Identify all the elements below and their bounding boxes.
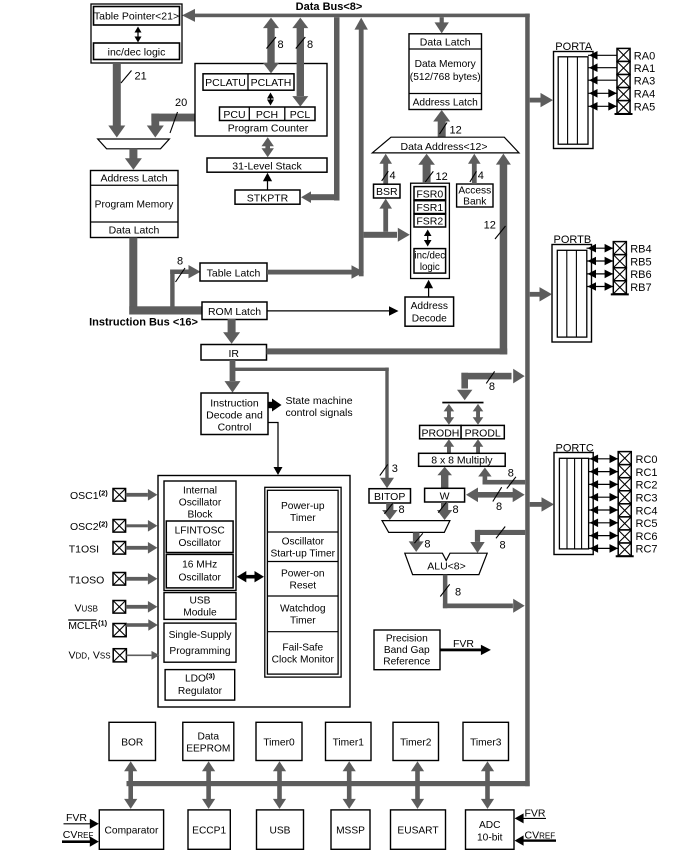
arrow bar to PRODL [476, 410, 480, 418]
svg-text:MCLR(1): MCLR(1) [68, 618, 107, 632]
register Table Latch [200, 263, 267, 281]
register Table Pointer outer box [91, 4, 182, 63]
svg-text:12: 12 [436, 171, 448, 183]
svg-text:State machine: State machine [286, 395, 353, 407]
svg-text:RA1: RA1 [634, 63, 655, 75]
wire data bus to PORTB [530, 292, 540, 297]
register BITOP [369, 489, 411, 503]
module resets inner box with timers [267, 490, 338, 674]
peripheral Timer1 [326, 722, 372, 760]
svg-text:LFINTOSC: LFINTOSC [175, 526, 225, 537]
svg-text:8: 8 [278, 39, 284, 51]
svg-text:CVREF: CVREF [63, 829, 94, 841]
svg-text:8: 8 [508, 468, 514, 480]
slash 12 riser [495, 226, 506, 239]
wire Timer0/USB [277, 769, 282, 802]
svg-text:Address Latch: Address Latch [100, 173, 167, 185]
svg-text:Decode: Decode [412, 314, 447, 325]
svg-text:8: 8 [455, 587, 461, 599]
svg-text:RC2: RC2 [636, 480, 658, 492]
svg-text:Timer0: Timer0 [263, 737, 295, 748]
register W [425, 488, 465, 502]
svg-text:VDD, VSS: VDD, VSS [69, 650, 111, 662]
svg-text:RA5: RA5 [634, 102, 655, 114]
svg-text:Watchdog: Watchdog [280, 604, 326, 615]
svg-text:Module: Module [183, 608, 217, 619]
svg-text:inc/dec: inc/dec [414, 251, 445, 262]
peripheral Timer3 [463, 722, 509, 760]
svg-text:Start-up Timer: Start-up Timer [271, 549, 336, 560]
slash 21 [121, 71, 132, 84]
svg-text:8: 8 [399, 504, 405, 516]
svg-text:(512/768 bytes): (512/768 bytes) [410, 72, 481, 83]
svg-text:BITOP: BITOP [374, 491, 405, 503]
svg-text:Band Gap: Band Gap [384, 645, 430, 656]
slash 20 [170, 112, 178, 133]
wire Timer2/EUSART [415, 769, 420, 802]
peripheral ADC 10-bit [466, 810, 515, 849]
wire CVREF to comparator [62, 840, 91, 843]
arrow multiply to PRODH [447, 447, 451, 454]
wire data address to address latch 12 [438, 121, 446, 137]
peripheral EUSART [391, 810, 446, 849]
arrow bar to PRODH [447, 410, 451, 418]
register PCLATU/PCLATH [203, 74, 294, 90]
wire 20-bit program counter to mux [151, 114, 195, 122]
bidirectional arrow FSR/inc-dec [427, 233, 429, 243]
slash 8 mux alu [414, 533, 422, 543]
module system block outer box [158, 476, 350, 708]
register FSR1 [414, 201, 446, 214]
svg-text:T1OSI: T1OSI [69, 543, 99, 555]
svg-text:FVR: FVR [66, 812, 87, 824]
wire program counter to stack double arrow [265, 146, 270, 150]
svg-text:Data Latch: Data Latch [420, 37, 471, 49]
svg-text:Oscillator: Oscillator [282, 537, 325, 548]
slash 8 alu out [440, 584, 449, 596]
bidirectional arrow oscillator/resets [245, 575, 259, 579]
svg-text:Address Latch: Address Latch [413, 97, 478, 108]
svg-text:Oscillator: Oscillator [179, 498, 222, 509]
svg-text:31-Level Stack: 31-Level Stack [232, 160, 302, 172]
wire address decode to inc/dec [428, 288, 430, 297]
svg-text:Power-up: Power-up [281, 501, 325, 512]
svg-text:Data Address<12>: Data Address<12> [401, 141, 488, 153]
wire data bus to PCLATH 8 [267, 28, 274, 64]
svg-text:Oscillator: Oscillator [178, 573, 221, 584]
wire PROD bus bar [442, 402, 483, 404]
wire Timer3/ADC [485, 769, 490, 802]
wire IR literal to BITOP [233, 368, 389, 371]
register PCU/PCH/PCL [220, 107, 316, 121]
svg-text:10-bit: 10-bit [477, 833, 503, 844]
svg-text:OSC1(2): OSC1(2) [70, 489, 108, 503]
svg-text:T1OSO: T1OSO [69, 574, 105, 586]
wire mux to address latch [129, 149, 137, 159]
arrow multiply to PRODL [476, 447, 480, 454]
svg-text:BSR: BSR [376, 186, 398, 198]
wire IR to instruction decode [230, 360, 236, 381]
wire table latch to data bus riser [267, 270, 352, 275]
svg-text:IR: IR [228, 348, 239, 360]
arrow state machine control signals [268, 402, 273, 408]
svg-text:RB6: RB6 [630, 269, 651, 281]
register PRODH [420, 425, 462, 438]
wire bottom peripheral bus [127, 781, 530, 786]
svg-text:Data Bus<8>: Data Bus<8> [296, 1, 363, 13]
wire data bus tap to BSR/FSR [364, 232, 397, 238]
svg-text:logic: logic [420, 262, 440, 273]
register Table Pointer<21> [94, 7, 180, 26]
svg-text:RA0: RA0 [634, 51, 655, 63]
peripheral Timer0 [256, 722, 302, 760]
svg-text:Timer: Timer [290, 513, 316, 524]
svg-text:Single-Supply: Single-Supply [169, 630, 233, 641]
slash 8 bus alu [496, 527, 505, 539]
slash 12 FSR [425, 171, 433, 182]
svg-text:Bank: Bank [463, 197, 487, 208]
memory data memory box [409, 34, 482, 110]
wire access bank to data address 4 [472, 163, 477, 185]
wire decode to oscillator block [268, 423, 278, 469]
svg-text:MSSP: MSSP [336, 826, 365, 837]
oscillator 16 MHz [166, 554, 233, 588]
svg-text:Fail-Safe: Fail-Safe [282, 643, 323, 654]
pin stack bottom tick PORTB [611, 293, 629, 295]
wire data bus to data latch [440, 17, 444, 22]
slash 8 PROD [486, 371, 494, 383]
wire Timer1/MSSP [347, 769, 352, 802]
module resets outer box [265, 487, 341, 677]
svg-text:Block: Block [188, 510, 214, 521]
peripheral Timer2 [393, 722, 439, 760]
svg-text:Timer: Timer [290, 616, 316, 627]
slash 8 W mux [438, 502, 446, 512]
svg-text:Internal: Internal [183, 486, 217, 497]
wire IR direct address riser to data address mux [500, 163, 508, 354]
svg-text:STKPTR: STKPTR [247, 193, 289, 205]
pin RC2 [589, 483, 619, 485]
svg-text:W: W [440, 491, 450, 503]
svg-text:ECCP1: ECCP1 [192, 826, 226, 837]
svg-text:RC4: RC4 [636, 505, 658, 517]
wire mux to ALU 8 [413, 532, 420, 541]
wire data bus to PORTA [530, 98, 541, 103]
pin stack bottom tick PORTA [615, 113, 633, 115]
pin RC5 [589, 522, 619, 524]
logic inc/dec logic FSR [414, 249, 446, 274]
wire W to alu mux [441, 502, 448, 510]
svg-text:Decode and: Decode and [206, 410, 263, 422]
wire 21-bit table pointer to mux [113, 63, 121, 126]
svg-text:FVR: FVR [453, 638, 474, 650]
slash 8 W bus [493, 487, 502, 501]
svg-text:Control: Control [218, 422, 252, 434]
svg-text:8 x 8 Multiply: 8 x 8 Multiply [431, 455, 493, 467]
svg-text:12: 12 [484, 219, 496, 231]
svg-text:OSC2(2): OSC2(2) [70, 520, 108, 534]
svg-text:VUSB: VUSB [75, 602, 98, 614]
wire W to multiply [441, 475, 448, 489]
peripheral BOR [109, 722, 156, 760]
svg-text:3: 3 [392, 463, 398, 475]
svg-text:BOR: BOR [121, 737, 143, 748]
svg-text:8: 8 [307, 39, 313, 51]
svg-text:Reference: Reference [383, 657, 430, 668]
wire data bus riser up [359, 29, 364, 276]
svg-text:FVR: FVR [525, 808, 546, 820]
wire FVR to ADC [522, 817, 546, 819]
pin MCLR [68, 619, 96, 621]
module USB Module [164, 593, 236, 620]
oscillator LFINTOSC [166, 521, 233, 553]
svg-text:Oscillator: Oscillator [178, 538, 221, 549]
svg-text:4: 4 [390, 170, 396, 182]
pin RC0 [589, 458, 619, 460]
peripheral Comparator [99, 810, 163, 849]
pin RB5 [587, 260, 614, 262]
wire 8-bit branch to table latch [170, 270, 174, 310]
reference Precision Band Gap Reference [374, 630, 440, 670]
memory program memory box [91, 171, 179, 238]
register IR [201, 345, 267, 361]
alu ALU<8> [405, 553, 487, 574]
svg-text:8: 8 [177, 256, 183, 268]
arrow FVR output [440, 649, 481, 652]
slash 8 PCLATH [267, 37, 277, 49]
svg-text:EEPROM: EEPROM [186, 744, 230, 755]
svg-text:Instruction: Instruction [210, 398, 259, 410]
pin RB6 [587, 273, 614, 275]
register program counter outer box [195, 64, 327, 137]
pin stack bottom tick PORTC [616, 555, 634, 557]
mux Data Address<12> [372, 137, 519, 153]
bidirectional arrow table pointer/inc-dec [137, 30, 139, 39]
logic inc/dec logic [94, 43, 180, 60]
svg-text:Comparator: Comparator [105, 826, 159, 837]
svg-text:Program Counter: Program Counter [228, 122, 309, 134]
wire CVREF to ADC [522, 839, 556, 841]
svg-text:16 MHz: 16 MHz [182, 560, 217, 571]
wire instruction path data latch to ROM latch [129, 238, 137, 315]
register PRODL [461, 425, 504, 438]
svg-text:Timer3: Timer3 [470, 737, 502, 748]
svg-text:8: 8 [500, 540, 506, 552]
pin RC3 [589, 496, 619, 498]
register STKPTR [235, 190, 300, 204]
pin RA0 [588, 54, 617, 56]
slash 8 BITOP [384, 503, 392, 513]
arrowhead data bus into Table Pointer [182, 9, 195, 22]
svg-text:Timer1: Timer1 [333, 737, 365, 748]
wire IR output bus [267, 348, 508, 354]
logic Address Decode [405, 297, 454, 326]
svg-text:USB: USB [270, 826, 291, 837]
svg-text:Reset: Reset [289, 581, 316, 592]
peripheral USB [257, 810, 304, 849]
svg-text:Data Latch: Data Latch [109, 225, 160, 237]
svg-text:Program Memory: Program Memory [95, 200, 175, 211]
svg-text:Clock Monitor: Clock Monitor [272, 655, 335, 666]
svg-text:Instruction Bus <16>: Instruction Bus <16> [89, 317, 198, 329]
pin RB7 [587, 286, 614, 288]
wire FSR to data address 12 [423, 165, 431, 184]
svg-text:12: 12 [450, 125, 462, 137]
module LDO Regulator [165, 670, 235, 701]
module Single-Supply Programming [164, 623, 236, 662]
svg-text:FSR0: FSR0 [416, 189, 443, 201]
svg-text:Data: Data [198, 732, 220, 743]
svg-text:RC7: RC7 [636, 544, 658, 556]
svg-text:Table Pointer<21>: Table Pointer<21> [94, 11, 179, 23]
svg-text:control signals: control signals [286, 407, 353, 419]
svg-text:Precision: Precision [386, 634, 428, 645]
svg-text:Access: Access [458, 186, 491, 197]
peripheral Data EEPROM [183, 722, 234, 760]
wire data bus to multiply 8 [483, 476, 488, 485]
svg-text:RC6: RC6 [636, 531, 658, 543]
wire data bus to PORTC [530, 502, 542, 507]
register FSR0 [414, 187, 446, 200]
svg-text:PRODH: PRODH [421, 427, 459, 439]
memory 31-Level Stack [207, 158, 327, 172]
svg-text:RC5: RC5 [636, 518, 658, 530]
svg-text:ADC: ADC [479, 820, 501, 831]
slash 8 multiply [507, 477, 516, 489]
svg-text:8: 8 [424, 538, 430, 550]
wire ROM latch to address decode [267, 310, 390, 312]
svg-text:PCLATU: PCLATU [205, 77, 246, 89]
svg-text:ROM Latch: ROM Latch [208, 306, 261, 318]
svg-text:Table Latch: Table Latch [207, 267, 261, 279]
svg-text:inc/dec logic: inc/dec logic [108, 47, 166, 59]
bidirectional arrow PCLATH/PCH [270, 96, 272, 103]
svg-text:RB4: RB4 [630, 244, 651, 256]
wire BOR/Comparator [128, 769, 133, 802]
svg-text:RC1: RC1 [636, 467, 658, 479]
svg-text:Programming: Programming [169, 646, 230, 657]
svg-text:8: 8 [453, 504, 459, 516]
svg-text:FSR1: FSR1 [416, 202, 443, 214]
peripheral ECCP1 [188, 810, 230, 849]
mux W/BITOP to ALU [382, 521, 450, 533]
wire STKPTR to stack [267, 181, 269, 190]
wire W to data bus 8 double arrow [478, 492, 515, 498]
wire BITOP to alu mux [386, 503, 393, 510]
pin RA5 [588, 105, 617, 107]
svg-text:Regulator: Regulator [178, 686, 223, 697]
svg-text:RC0: RC0 [636, 454, 658, 466]
svg-text:PCL: PCL [290, 109, 311, 121]
svg-text:Address: Address [411, 301, 448, 312]
pin RC6 [589, 535, 619, 537]
svg-text:21: 21 [135, 71, 147, 83]
svg-text:RC3: RC3 [636, 493, 658, 505]
wire data bus top [193, 14, 530, 18]
wire data bus to PCL 8 [297, 28, 304, 96]
pin RA1 [588, 67, 617, 69]
wire FVR to comparator [64, 823, 92, 825]
logic Instruction Decode and Control [201, 393, 268, 435]
svg-text:PCU: PCU [223, 109, 245, 121]
svg-text:PRODL: PRODL [465, 427, 501, 439]
slash 8 PCL [296, 37, 306, 49]
pin RC1 [589, 471, 619, 473]
wire data bus to STKPTR [334, 17, 340, 200]
mux program memory address [98, 139, 170, 149]
svg-text:FSR2: FSR2 [416, 216, 443, 228]
svg-text:RA4: RA4 [634, 89, 655, 101]
wire BSR to data address 4 [383, 163, 388, 185]
wire data bus to BSR [383, 209, 388, 232]
svg-text:EUSART: EUSART [397, 826, 438, 837]
register ROM Latch [202, 302, 267, 320]
svg-text:Power-on: Power-on [281, 569, 325, 580]
svg-text:USB: USB [190, 596, 211, 607]
register Access Bank [457, 184, 493, 207]
wire EEPROM/ECCP1 [206, 769, 211, 802]
pin RC4 [589, 509, 619, 511]
slash 3 [380, 464, 388, 475]
svg-text:PCH: PCH [256, 109, 278, 121]
pin RA4 [588, 92, 617, 94]
svg-text:RB7: RB7 [630, 282, 651, 294]
pin RB4 [587, 247, 614, 249]
svg-text:Data Memory: Data Memory [415, 59, 477, 70]
svg-text:4: 4 [478, 170, 484, 182]
wire ROM latch to IR [228, 319, 236, 333]
module Internal Oscillator Block [164, 481, 236, 591]
wire main data bus right vertical [525, 14, 530, 787]
register BSR [374, 184, 401, 198]
svg-text:Timer2: Timer2 [400, 737, 432, 748]
alu 8x8 Multiply [419, 453, 506, 466]
slash 4 access bank [470, 171, 477, 182]
wire data bus tap to PROD registers [461, 373, 511, 380]
svg-text:8: 8 [489, 381, 495, 393]
svg-text:8: 8 [496, 501, 502, 513]
svg-text:PCLATH: PCLATH [251, 77, 292, 89]
register FSR2 [414, 214, 446, 227]
register file FSR outer box [411, 183, 450, 278]
pin RA3 [588, 79, 617, 81]
slash 12 address latch [440, 123, 448, 135]
svg-text:RB5: RB5 [630, 256, 651, 268]
svg-text:20: 20 [175, 97, 187, 109]
slash 4 BSR [382, 171, 389, 181]
wire ALU result to data bus 8 [443, 575, 448, 609]
pin RC7 [589, 547, 619, 549]
svg-text:RA3: RA3 [634, 76, 655, 88]
svg-text:ALU<8>: ALU<8> [427, 560, 466, 572]
wire data bus to ALU 8 [478, 530, 526, 535]
slash 8 table latch [176, 268, 186, 282]
peripheral MSSP [331, 810, 370, 849]
